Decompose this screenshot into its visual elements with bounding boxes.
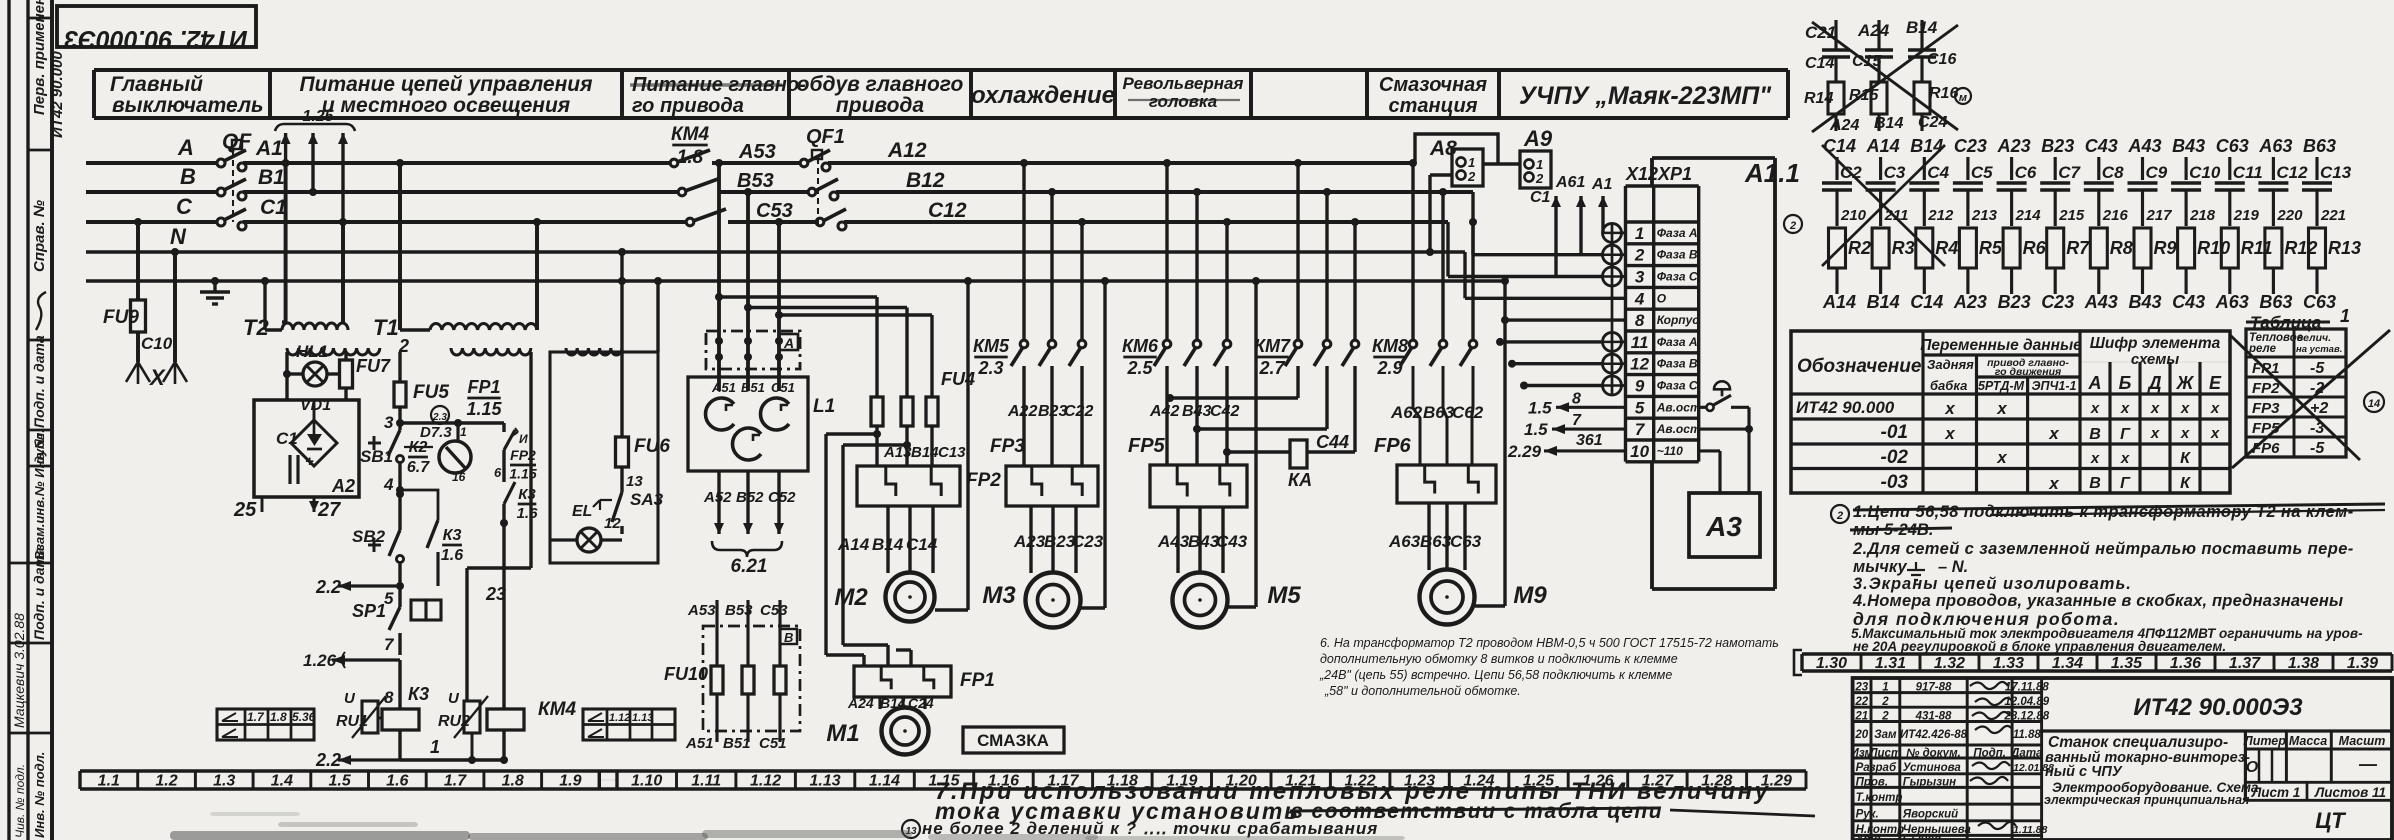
svg-text:Утв.: Утв. bbox=[1856, 834, 1884, 840]
zone reference band bottom bbox=[80, 769, 1806, 772]
svg-text:А63: А63 bbox=[2258, 136, 2292, 156]
svg-text:Корпус: Корпус bbox=[1657, 313, 1700, 327]
loop wire rail55 to M9 right bbox=[1503, 281, 1506, 606]
svg-text:12: 12 bbox=[604, 515, 621, 532]
svg-text:Взам.инв.№ Инв.№: Взам.инв.№ Инв.№ bbox=[32, 434, 47, 560]
svg-text:Дата: Дата bbox=[2010, 748, 2043, 760]
title block liter massa masshtab bbox=[2244, 731, 2247, 800]
svg-text:8: 8 bbox=[1572, 390, 1581, 407]
button SB1 bbox=[388, 430, 400, 456]
contact legend table 2 bbox=[583, 709, 675, 740]
svg-text:А63: А63 bbox=[1388, 532, 1421, 551]
contactor coil KM4 bbox=[487, 709, 524, 730]
cross-out X over RC group 1 bbox=[1812, 22, 1958, 130]
svg-text:27: 27 bbox=[317, 499, 341, 521]
svg-text:на устав.: на устав. bbox=[2296, 344, 2342, 355]
svg-text:В12: В12 bbox=[906, 169, 945, 192]
svg-text:1.33: 1.33 bbox=[1993, 655, 2024, 672]
svg-text:Рук.: Рук. bbox=[1856, 809, 1879, 821]
svg-text:Фаза А: Фаза А bbox=[1657, 335, 1698, 349]
contact FP2 1.15 bbox=[502, 423, 505, 432]
svg-text:+: + bbox=[305, 453, 314, 470]
svg-text:Г: Г bbox=[2120, 475, 2131, 492]
svg-text:2.3: 2.3 bbox=[977, 358, 1003, 378]
svg-text:ИТ42.426-88: ИТ42.426-88 bbox=[1900, 729, 1968, 741]
svg-text:„58" и дополнительной обмо: „58" и дополнительной обмотке. bbox=[1324, 684, 1521, 698]
svg-text:~110: ~110 bbox=[1657, 444, 1683, 458]
svg-text:С23: С23 bbox=[2041, 292, 2074, 312]
svg-text:С3: С3 bbox=[1884, 163, 1906, 182]
transformer T2 secondary winding bbox=[287, 348, 380, 355]
svg-text:1.12: 1.12 bbox=[609, 712, 630, 724]
svg-text:28.12.88: 28.12.88 bbox=[2003, 710, 2049, 722]
motor M2 bbox=[886, 573, 935, 622]
svg-text:Мацкевич 3.02.88: Мацкевич 3.02.88 bbox=[11, 613, 27, 728]
svg-text:1.15: 1.15 bbox=[466, 399, 502, 419]
svg-text:R5: R5 bbox=[1979, 238, 2003, 258]
svg-text:С63: С63 bbox=[2303, 292, 2336, 312]
svg-text:х: х bbox=[2090, 400, 2100, 417]
svg-text:7: 7 bbox=[1572, 412, 1582, 429]
button SB2 bbox=[389, 530, 400, 556]
arrow 2.2 upper bbox=[338, 584, 400, 587]
svg-text:FP2: FP2 bbox=[510, 447, 536, 463]
control chain node 3 bbox=[398, 407, 401, 430]
svg-text:11: 11 bbox=[1631, 333, 1649, 352]
svg-text:1.8: 1.8 bbox=[502, 773, 524, 790]
svg-text:VD1: VD1 bbox=[300, 397, 331, 414]
wire 55 to row 8 korpus bbox=[1501, 277, 1509, 285]
motor M9 bbox=[1420, 570, 1475, 625]
svg-text:1.37: 1.37 bbox=[2229, 655, 2261, 672]
bus phase C bbox=[86, 220, 218, 224]
svg-text:213: 213 bbox=[1971, 207, 1998, 224]
svg-text:А53: А53 bbox=[738, 141, 776, 163]
relay coil KA with C44 bbox=[1290, 440, 1307, 468]
thermal relay FP6 bbox=[1397, 465, 1496, 503]
circled mark note1 bbox=[1831, 505, 1849, 523]
svg-text:Масшт: Масшт bbox=[2339, 734, 2386, 748]
svg-text:FP3: FP3 bbox=[990, 436, 1025, 457]
svg-text:охлаждение: охлаждение bbox=[971, 82, 1115, 109]
wire C to T2 primary bbox=[341, 222, 345, 322]
relay coil K3 bbox=[382, 709, 419, 730]
svg-text:С62: С62 bbox=[1452, 403, 1484, 422]
svg-text:С1: С1 bbox=[260, 196, 287, 219]
svg-text:X: X bbox=[148, 365, 166, 390]
svg-text:R9: R9 bbox=[2154, 238, 2177, 258]
wire N to row 4 O bbox=[1463, 252, 1466, 298]
svg-text:1.13: 1.13 bbox=[632, 712, 653, 724]
block A3 bbox=[1689, 493, 1760, 557]
svg-text:5РТД-М: 5РТД-М bbox=[1978, 379, 2025, 393]
svg-text:1.2: 1.2 bbox=[155, 773, 177, 790]
svg-text:R11: R11 bbox=[2241, 238, 2273, 258]
wires FP2 to motor M2 bbox=[886, 506, 889, 573]
feeder arrow A to 1.25 bbox=[284, 133, 287, 163]
svg-text:Зам: Зам bbox=[1874, 729, 1897, 741]
motor M5 bbox=[1173, 573, 1228, 628]
svg-text:1.17: 1.17 bbox=[1047, 773, 1079, 790]
wire 55 to T2 bbox=[263, 281, 266, 330]
svg-text:С53: С53 bbox=[756, 200, 793, 222]
svg-text:А24: А24 bbox=[1829, 117, 1859, 134]
svg-text:6: 6 bbox=[494, 465, 502, 480]
svg-text:х: х bbox=[1996, 399, 2008, 418]
svg-text:А51: А51 bbox=[711, 380, 736, 395]
svg-text:Смазочная: Смазочная bbox=[1379, 74, 1487, 96]
svg-text:станция: станция bbox=[1388, 95, 1477, 117]
svg-text:м: м bbox=[1959, 92, 1967, 104]
brace 6.21 bbox=[712, 541, 782, 557]
node 5 bbox=[398, 562, 401, 607]
branch wire to K3 contact bbox=[400, 490, 438, 520]
svg-text:1.23: 1.23 bbox=[1404, 773, 1435, 790]
svg-text:1.3: 1.3 bbox=[213, 773, 235, 790]
svg-text:1.30: 1.30 bbox=[1816, 655, 1847, 672]
wire A to T2 primary bbox=[284, 163, 288, 322]
svg-text:В: В bbox=[2089, 475, 2101, 492]
svg-text:А51: А51 bbox=[685, 735, 714, 752]
wire C to T1 primary bbox=[535, 222, 539, 330]
svg-text:С51: С51 bbox=[759, 735, 787, 752]
svg-text:х: х bbox=[2180, 425, 2190, 442]
circled mark 14 bbox=[2364, 392, 2384, 412]
scan smudges bottom bbox=[170, 831, 470, 840]
svg-text:Масса: Масса bbox=[2289, 734, 2327, 748]
svg-text:А52: А52 bbox=[703, 489, 732, 506]
svg-text:RU1: RU1 bbox=[336, 713, 368, 730]
svg-text:В23: В23 bbox=[1044, 532, 1076, 551]
svg-text:С1: С1 bbox=[276, 429, 298, 448]
svg-text:С: С bbox=[176, 194, 193, 219]
circled mark 2 bbox=[1784, 215, 1802, 233]
svg-text:А53: А53 bbox=[687, 602, 716, 619]
transformer T1 secondary winding 1 bbox=[451, 348, 531, 355]
svg-text:ЭПЧ1-1: ЭПЧ1-1 bbox=[2032, 379, 2077, 393]
svg-text:В23: В23 bbox=[1998, 292, 2031, 312]
svg-text:219: 219 bbox=[2233, 207, 2260, 224]
svg-text:Подп.: Подп. bbox=[1973, 748, 2006, 760]
feeder arrow A1 to row 1 bbox=[1601, 196, 1604, 233]
svg-text:1.36: 1.36 bbox=[2170, 655, 2201, 672]
loop wire rail55 to M3 right bbox=[1103, 281, 1106, 608]
svg-text:214: 214 bbox=[2015, 207, 2042, 224]
svg-text:Подп. и дата: Подп. и дата bbox=[31, 335, 47, 428]
svg-text:210: 210 bbox=[1840, 207, 1867, 224]
svg-text:Ав.ост: Ав.ост bbox=[1656, 422, 1701, 436]
svg-text:С53: С53 bbox=[760, 602, 788, 619]
svg-text:С43: С43 bbox=[2172, 292, 2205, 312]
svg-text:В53: В53 bbox=[737, 170, 774, 192]
bottom rail with arrow 2.2 bbox=[338, 758, 400, 761]
svg-text:1.29: 1.29 bbox=[1761, 773, 1792, 790]
svg-text:-02: -02 bbox=[1881, 447, 1909, 468]
svg-text:КМ4: КМ4 bbox=[538, 699, 577, 720]
circled mark m bbox=[1955, 88, 1971, 104]
svg-text:1.6: 1.6 bbox=[517, 505, 539, 522]
svg-text:В63: В63 bbox=[1423, 403, 1455, 422]
svg-text:1.15: 1.15 bbox=[509, 465, 536, 481]
svg-text:ИТ42 90.000Э3: ИТ42 90.000Э3 bbox=[2133, 694, 2303, 721]
svg-text:2.Для сетей с заземленной: 2.Для сетей с заземленной нейтралью пост… bbox=[1852, 540, 2354, 558]
svg-text:А43: А43 bbox=[1157, 532, 1190, 551]
svg-text:В52: В52 bbox=[736, 489, 764, 506]
svg-text:R12: R12 bbox=[2284, 238, 2317, 258]
svg-text:1.11: 1.11 bbox=[691, 773, 721, 790]
wires FP3 to motor M3 bbox=[1029, 506, 1032, 573]
svg-text:1.10: 1.10 bbox=[631, 773, 662, 790]
svg-text:Т1: Т1 bbox=[373, 315, 399, 340]
svg-text:В43: В43 bbox=[2172, 136, 2205, 156]
svg-text:В51: В51 bbox=[741, 380, 765, 395]
zone reference band right bbox=[1802, 652, 2392, 655]
block A8 wire outline bbox=[1415, 134, 1498, 163]
resistor R14 bbox=[1828, 82, 1844, 114]
svg-text:дополнительную обмотку 8 ви: дополнительную обмотку 8 витков и подклю… bbox=[1320, 652, 1678, 666]
svg-text:FP2: FP2 bbox=[966, 470, 1001, 491]
svg-text:В51: В51 bbox=[723, 735, 751, 752]
svg-text:го привода: го привода bbox=[632, 95, 744, 117]
svg-text:20: 20 bbox=[1854, 729, 1868, 741]
svg-text:1: 1 bbox=[460, 425, 467, 439]
svg-text:SP1: SP1 bbox=[352, 601, 386, 621]
wire from line 55 to FU6 bbox=[620, 252, 623, 437]
svg-text:FU4: FU4 bbox=[941, 369, 975, 389]
thermal relay FP2 bbox=[857, 466, 960, 506]
wire 23 branch bbox=[502, 523, 505, 709]
svg-text:В23: В23 bbox=[2041, 136, 2074, 156]
svg-text:1.25: 1.25 bbox=[1523, 773, 1555, 790]
ground fork X bbox=[126, 362, 150, 384]
wire KM7 phase A to M5 column bbox=[1296, 366, 1299, 398]
svg-text:1.22: 1.22 bbox=[1345, 773, 1376, 790]
svg-text:Станок специализиро-: Станок специализиро- bbox=[2048, 734, 2228, 751]
svg-text:12: 12 bbox=[1630, 355, 1649, 374]
header band boxes bbox=[94, 68, 1788, 72]
svg-text:R13: R13 bbox=[2328, 238, 2361, 258]
svg-text:А2: А2 bbox=[331, 476, 355, 496]
svg-text:С43: С43 bbox=[1216, 532, 1248, 551]
svg-text:Фаза В: Фаза В bbox=[1657, 248, 1698, 262]
thermal relay FP3 bbox=[1006, 466, 1098, 506]
wires KM8 to FP6 bbox=[1413, 366, 1420, 465]
arrow 1.5 circuit 8 row 5 bbox=[1556, 406, 1626, 409]
lighting circuit enclosure wire loop bbox=[550, 352, 658, 563]
svg-text:1.15: 1.15 bbox=[928, 773, 960, 790]
block A2 outline bbox=[254, 400, 359, 497]
loop wires to FP1 bbox=[826, 432, 877, 435]
svg-text:HL1: HL1 bbox=[296, 342, 328, 361]
dash-dot box B with fuses FU10 bbox=[703, 626, 800, 731]
svg-text:А23: А23 bbox=[1997, 136, 2031, 156]
svg-text:1.25: 1.25 bbox=[302, 108, 334, 125]
transformer T1 secondary winding 2 bbox=[566, 348, 622, 355]
svg-text:FP1: FP1 bbox=[960, 670, 995, 691]
svg-text:R8: R8 bbox=[2110, 238, 2133, 258]
svg-text:х: х bbox=[2048, 424, 2060, 443]
svg-text:3: 3 bbox=[384, 413, 394, 432]
svg-text:С6: С6 bbox=[2015, 163, 2037, 182]
variable data table bbox=[1791, 331, 2230, 493]
svg-text:FP2: FP2 bbox=[2252, 380, 2280, 397]
svg-text:Фаза С: Фаза С bbox=[1657, 270, 1698, 284]
svg-text:Г: Г bbox=[2120, 426, 2131, 443]
svg-text:го движения: го движения bbox=[1995, 366, 2061, 378]
svg-text:1.16: 1.16 bbox=[988, 773, 1019, 790]
svg-text:А22: А22 bbox=[1007, 403, 1037, 420]
svg-text:С63: С63 bbox=[2216, 136, 2249, 156]
branch from node 3 to FP2 chain bbox=[400, 421, 504, 424]
svg-text:В14: В14 bbox=[911, 444, 939, 461]
svg-text:С44: С44 bbox=[1316, 432, 1349, 452]
svg-text:№ докум.: № докум. bbox=[1906, 748, 1961, 760]
svg-text:С14: С14 bbox=[1805, 55, 1834, 72]
svg-text:R6: R6 bbox=[2023, 238, 2047, 258]
svg-text:R2: R2 bbox=[1848, 238, 1871, 258]
svg-text:х: х bbox=[2150, 425, 2160, 442]
fuse FU9 bbox=[131, 300, 146, 332]
svg-text:М3: М3 bbox=[982, 582, 1016, 609]
svg-text:1.26: 1.26 bbox=[303, 651, 337, 670]
wires FP5 to motor M5 bbox=[1176, 507, 1179, 573]
svg-text:ЦТ: ЦТ bbox=[2315, 808, 2346, 833]
svg-text:„24В" (цепь 55) встречно. Це: „24В" (цепь 55) встречно. Цепи 56,58 под… bbox=[1319, 668, 1672, 682]
svg-text:FU9: FU9 bbox=[103, 307, 139, 328]
contact K3 1.6 upper bbox=[502, 450, 505, 482]
node 4 bbox=[398, 462, 401, 530]
inverted corner stamp IT42 90.000E3 bbox=[57, 6, 256, 47]
svg-text:Ж: Ж bbox=[2176, 373, 2195, 393]
svg-text:и местного освещения: и местного освещения bbox=[322, 94, 570, 117]
svg-text:О: О bbox=[2246, 759, 2259, 776]
svg-text:215: 215 bbox=[2058, 207, 2085, 224]
svg-text:-5: -5 bbox=[2310, 440, 2325, 457]
svg-text:ный с ЧПУ: ный с ЧПУ bbox=[2045, 764, 2123, 780]
svg-text:х: х bbox=[2210, 400, 2220, 417]
svg-text:2.2: 2.2 bbox=[315, 577, 341, 597]
svg-text:L1: L1 bbox=[813, 396, 835, 417]
contact K3 1.6 bbox=[427, 520, 438, 548]
svg-text:U: U bbox=[448, 690, 460, 707]
svg-text:А: А bbox=[2088, 373, 2102, 393]
svg-text:С10: С10 bbox=[141, 334, 173, 353]
ground symbol on line 55 bbox=[213, 281, 216, 292]
svg-text:2: 2 bbox=[1789, 220, 1796, 232]
svg-text:Обозначение: Обозначение bbox=[1797, 356, 1922, 377]
svg-text:1.4: 1.4 bbox=[271, 773, 293, 790]
svg-text:велич.: велич. bbox=[2297, 332, 2331, 344]
svg-text:D7.3: D7.3 bbox=[420, 424, 452, 441]
wire N to A8 pin 2 bbox=[1430, 173, 1452, 176]
feeder arrow C to 1.25 bbox=[341, 133, 344, 222]
thermal relay FP5 bbox=[1150, 465, 1247, 507]
svg-text:Пров.: Пров. bbox=[1856, 777, 1888, 789]
svg-text:Револьверная: Револьверная bbox=[1123, 74, 1244, 93]
svg-text:1: 1 bbox=[1882, 681, 1888, 693]
svg-text:212: 212 bbox=[1927, 207, 1954, 224]
svg-text:4: 4 bbox=[383, 475, 394, 494]
svg-text:1.11.88: 1.11.88 bbox=[2013, 824, 2047, 836]
thermal relay FP1 bbox=[854, 666, 951, 697]
svg-text:4.Номера проводов, указанные: 4.Номера проводов, указанные в скобках, … bbox=[1852, 592, 2343, 610]
svg-text:Е: Е bbox=[2209, 373, 2222, 393]
svg-text:КМ6: КМ6 bbox=[1122, 336, 1159, 356]
svg-text:С14: С14 bbox=[1823, 136, 1856, 156]
svg-text:2: 2 bbox=[1467, 169, 1476, 184]
svg-text:220: 220 bbox=[2276, 207, 2303, 224]
svg-text:В63: В63 bbox=[2303, 136, 2336, 156]
svg-text:А14: А14 bbox=[1822, 292, 1856, 312]
svg-text:М2: М2 bbox=[834, 584, 868, 611]
svg-text:ИТ42 90.000: ИТ42 90.000 bbox=[1796, 398, 1895, 417]
shield chain circles bbox=[1611, 224, 1614, 396]
svg-text:Листов 11: Листов 11 bbox=[2314, 785, 2386, 800]
svg-text:В43: В43 bbox=[1188, 532, 1220, 551]
svg-text:1: 1 bbox=[2340, 306, 2350, 326]
svg-text:FP1: FP1 bbox=[467, 377, 500, 397]
capacitor C16 bbox=[1920, 20, 1923, 50]
svg-text:В63: В63 bbox=[2259, 292, 2292, 312]
svg-text:1.28: 1.28 bbox=[1701, 773, 1732, 790]
svg-text:917-88: 917-88 bbox=[1916, 681, 1952, 693]
svg-text:С24: С24 bbox=[1918, 114, 1947, 131]
wire row 10 to A3 bbox=[1699, 449, 1720, 452]
svg-text:ИТ42 90.000: ИТ42 90.000 bbox=[49, 51, 66, 138]
svg-text:9: 9 bbox=[1635, 377, 1645, 396]
svg-text:1: 1 bbox=[1536, 157, 1543, 172]
svg-text:– N.: – N. bbox=[1938, 558, 1968, 576]
svg-text:22: 22 bbox=[1854, 696, 1868, 708]
svg-text:-01: -01 bbox=[1881, 422, 1908, 443]
drop wires A53 B53 C53 bbox=[717, 163, 721, 391]
svg-text:6.21: 6.21 bbox=[731, 556, 768, 577]
svg-text:1: 1 bbox=[430, 737, 440, 757]
svg-text:КМ8: КМ8 bbox=[1372, 336, 1408, 356]
bus phase A bbox=[86, 161, 218, 165]
resistor R16 bbox=[1914, 82, 1930, 114]
label 13 bbox=[620, 467, 623, 492]
svg-text:FU6: FU6 bbox=[634, 436, 670, 457]
svg-text:RU2: RU2 bbox=[438, 713, 470, 730]
svg-text:С7: С7 bbox=[2058, 163, 2081, 182]
svg-text:1.5: 1.5 bbox=[1528, 398, 1552, 417]
fuse FU6 bbox=[616, 437, 629, 467]
svg-text:х: х bbox=[2150, 400, 2160, 417]
feed wires rows 11 12 9 bbox=[1500, 340, 1603, 343]
wires L1 to 6.21 arrows bbox=[717, 471, 720, 534]
svg-text:В43: В43 bbox=[2129, 292, 2162, 312]
svg-text:М9: М9 bbox=[1513, 582, 1547, 609]
svg-text:5: 5 bbox=[1635, 398, 1645, 417]
svg-text:ХР1: ХР1 bbox=[1657, 164, 1692, 184]
svg-text:Б: Б bbox=[2119, 373, 2132, 393]
svg-text:х: х bbox=[1944, 399, 1956, 418]
svg-text:х: х bbox=[2090, 450, 2100, 467]
sheet frame left margin lines bbox=[7, 0, 10, 840]
svg-text:R7: R7 bbox=[2066, 238, 2090, 258]
svg-text:1.19: 1.19 bbox=[1166, 773, 1197, 790]
svg-text:FU10: FU10 bbox=[664, 664, 708, 684]
loop wire rail55 to M5 right bbox=[1254, 281, 1257, 607]
svg-text:реле: реле bbox=[2248, 343, 2277, 355]
svg-text:FP5: FP5 bbox=[1128, 435, 1166, 457]
svg-text:А43: А43 bbox=[2084, 292, 2118, 312]
svg-text:К3: К3 bbox=[518, 486, 536, 503]
svg-text:х: х bbox=[2120, 450, 2130, 467]
svg-text:С11: С11 bbox=[2233, 163, 2263, 182]
wire C to FU9 bbox=[136, 222, 140, 300]
